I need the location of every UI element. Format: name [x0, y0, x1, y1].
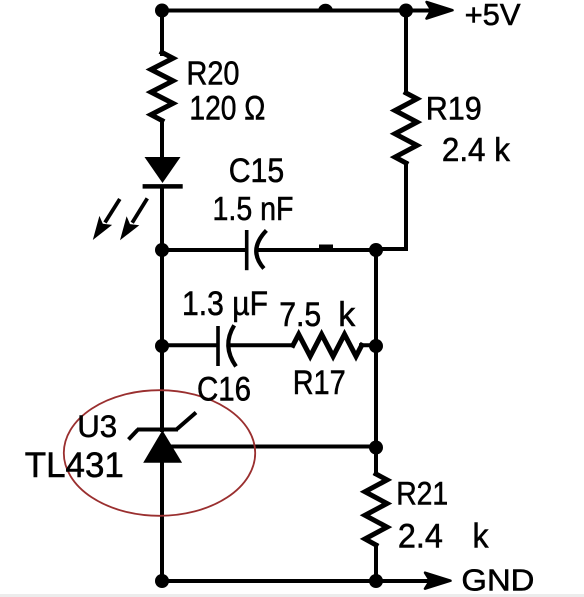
- wire R20 to LED: [160, 121, 164, 159]
- wire C16 to R17: [229, 343, 293, 347]
- junction node C16 left: [155, 339, 169, 353]
- wire node to R19 corner: [376, 163, 406, 249]
- wire top rail: [162, 9, 430, 13]
- annotation red ellipse: [64, 390, 255, 516]
- junction node ref: [369, 441, 383, 455]
- shunt regulator U3 TL431: [129, 413, 197, 463]
- svg-text:TL431: TL431: [25, 446, 124, 485]
- svg-text:120 Ω: 120 Ω: [189, 90, 265, 128]
- capacitor C15: [247, 230, 267, 270]
- wire C15 left lead: [162, 248, 244, 252]
- resistor R17: [293, 334, 362, 356]
- capacitor C16: [218, 325, 236, 366]
- wire dash mark: [319, 245, 333, 250]
- wire R17 to node: [361, 343, 376, 347]
- junction node bottom-right: [369, 574, 383, 588]
- wire left branch mid: [160, 250, 164, 346]
- wire mid branch lower: [374, 448, 378, 474]
- junction node top-middle: [318, 4, 333, 11]
- svg-text:k: k: [338, 296, 356, 334]
- svg-text:7.5: 7.5: [279, 296, 321, 334]
- svg-text:2.4 k: 2.4 k: [442, 132, 510, 169]
- wire mid branch upper: [374, 250, 378, 346]
- resistor R21: [365, 474, 387, 545]
- +5V supply arrow: [427, 2, 453, 19]
- wire C16 left lead: [162, 343, 216, 347]
- svg-text:k: k: [473, 517, 490, 555]
- wire left branch upper: [160, 11, 164, 55]
- GND arrow: [425, 573, 451, 589]
- svg-text:U3: U3: [77, 408, 117, 444]
- svg-text:1.3 µF: 1.3 µF: [182, 285, 268, 323]
- svg-text:+5V: +5V: [465, 0, 521, 32]
- svg-text:GND: GND: [461, 562, 534, 597]
- wire right branch upper: [404, 11, 408, 94]
- wire C15 right lead: [257, 248, 377, 252]
- resistor R20: [151, 53, 173, 121]
- wire LED to node: [160, 188, 164, 250]
- LED emission arrow 1: [93, 199, 120, 240]
- LED diode: [143, 157, 183, 186]
- wire left branch lower: [160, 346, 164, 430]
- wire TL431 reference: [170, 445, 376, 449]
- junction node top-right: [399, 4, 413, 18]
- resistor R19: [395, 93, 417, 163]
- svg-text:R19: R19: [426, 90, 482, 126]
- LED emission arrow 2: [120, 198, 147, 240]
- junction node R17 right: [369, 339, 383, 353]
- svg-text:1.5 nF: 1.5 nF: [213, 190, 294, 227]
- svg-text:2.4: 2.4: [398, 517, 443, 555]
- wire R21 to bottom: [374, 545, 378, 581]
- svg-text:C15: C15: [229, 152, 285, 190]
- svg-text:R20: R20: [187, 55, 240, 92]
- junction node top-left: [155, 4, 169, 18]
- svg-text:R17: R17: [293, 364, 346, 402]
- svg-text:R21: R21: [396, 476, 448, 512]
- wire left branch bottom: [160, 461, 164, 581]
- junction node C15 right: [369, 243, 383, 257]
- svg-text:C16: C16: [197, 370, 251, 408]
- wire mid branch middle: [374, 346, 378, 448]
- junction node bottom-left: [155, 574, 169, 588]
- wire bottom rail: [162, 579, 427, 583]
- junction node C15 left: [155, 243, 169, 257]
